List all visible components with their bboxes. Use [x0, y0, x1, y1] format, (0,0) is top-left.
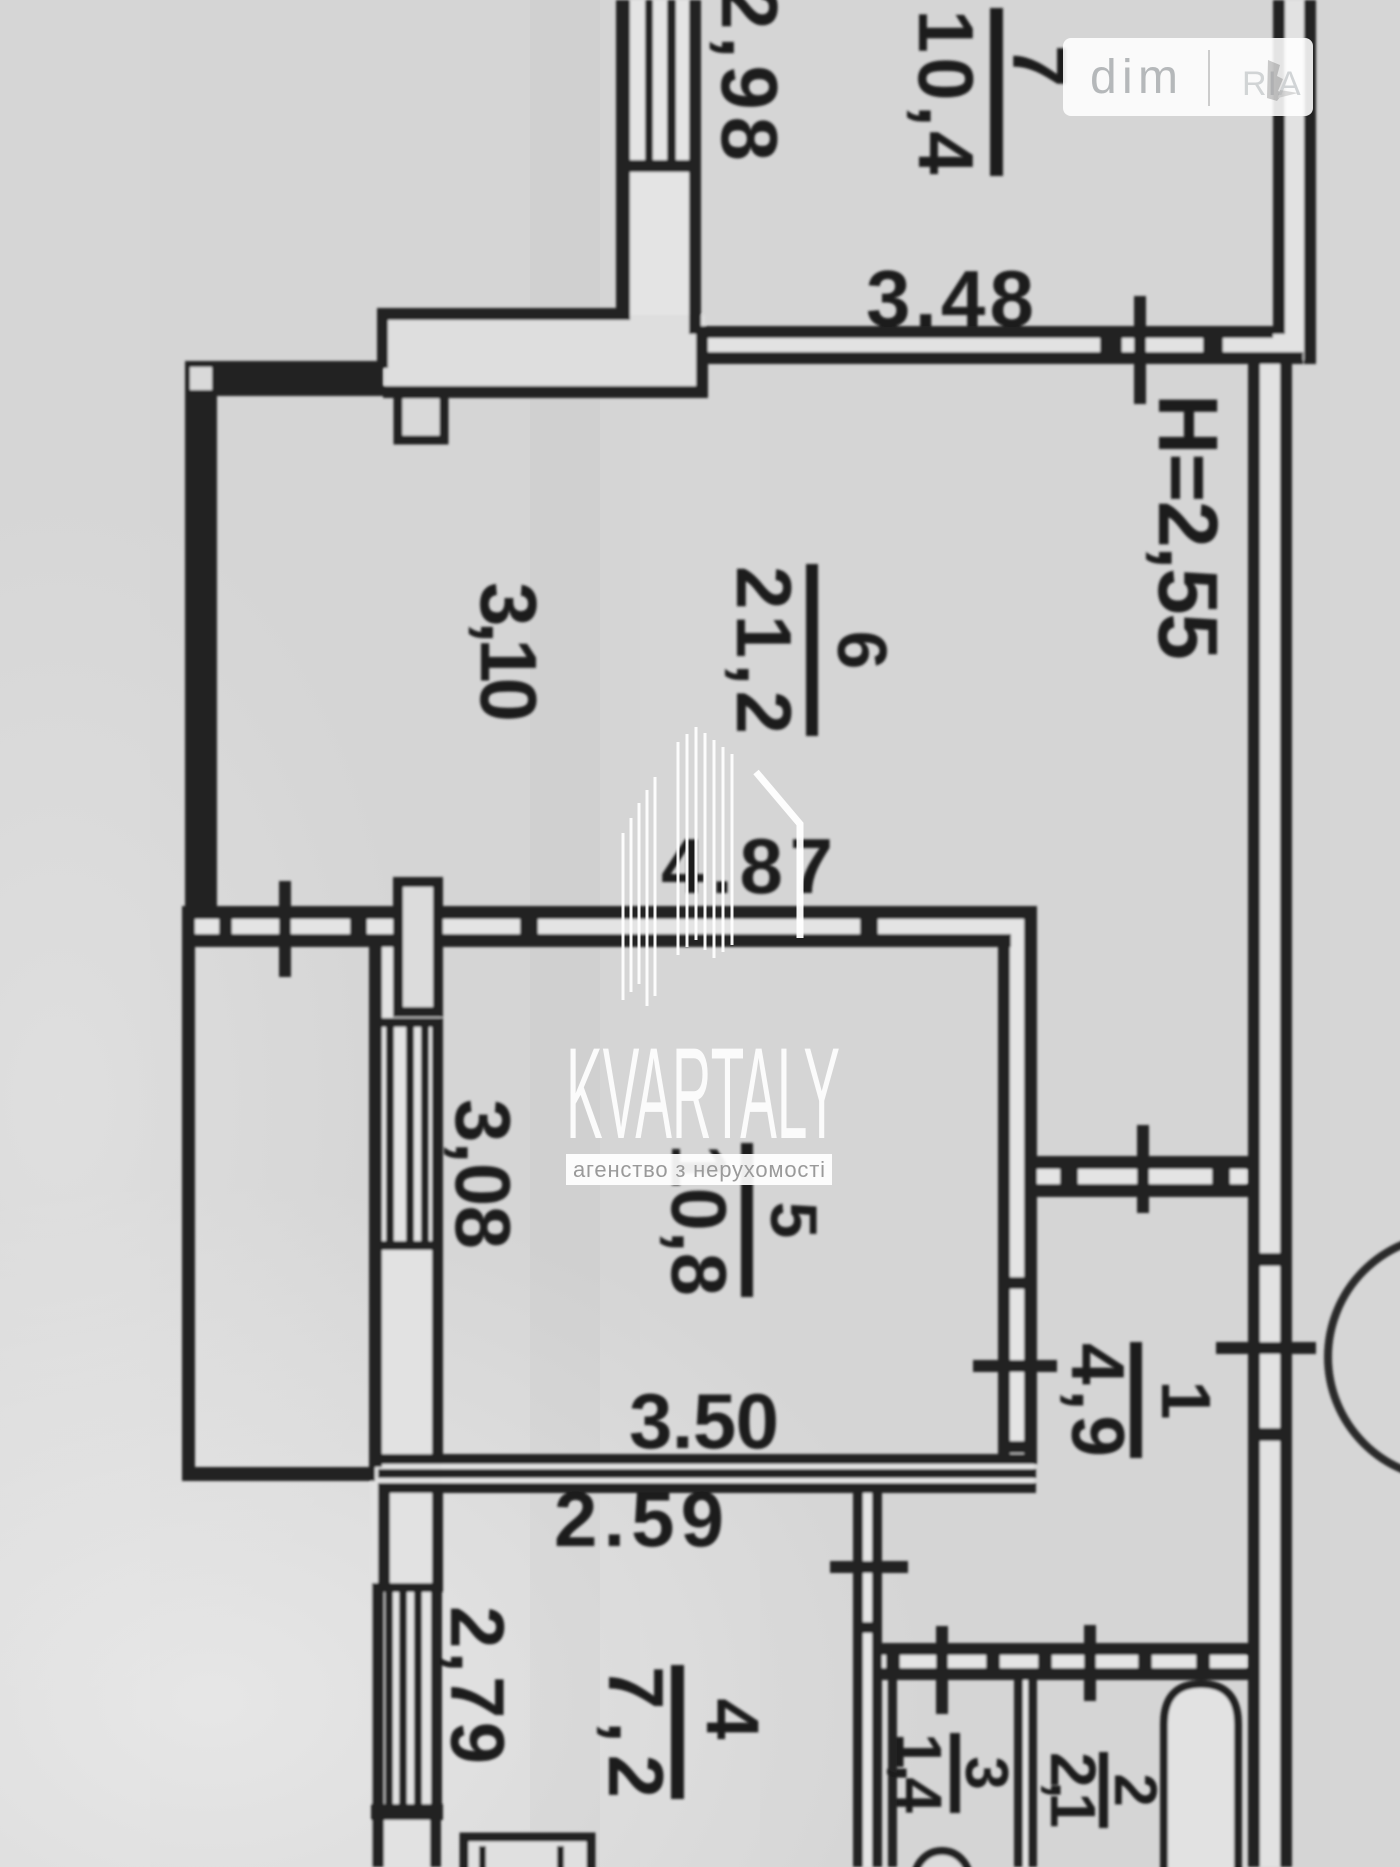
- svg-text:3.50: 3.50: [629, 1377, 779, 1465]
- wall: room4 right wall outer line: [853, 1483, 863, 1867]
- wall above window W4 left line: [378, 1493, 390, 1585]
- svg-text:5: 5: [757, 1202, 831, 1239]
- wall cavity dash b: [1203, 338, 1223, 352]
- watermark: kvartaly logo fan lines: [623, 727, 732, 1006]
- wall between rooms 3 and 2 line 1: [1014, 1668, 1023, 1867]
- wall: outer right wall lower outer line: [1280, 352, 1292, 1867]
- entrance door swing arc: [1328, 1235, 1400, 1479]
- wall: outer right wall upper inner line: [1273, 0, 1285, 334]
- watermark: agency bar: [566, 1154, 832, 1185]
- svg-text:1: 1: [1147, 1381, 1225, 1420]
- wall cavity dash on room5 right wall upper: [1008, 1277, 1026, 1289]
- wall: rooms 3/2 top wall line 2: [880, 1668, 1248, 1680]
- dimension text 2,79 (vertical): [434, 1606, 519, 1764]
- wall cavity light fill: right wall lower: [1250, 355, 1290, 1867]
- wall cavity light fill: right wall upper: [1276, 0, 1314, 360]
- wall: corridor wall left line (top): [616, 0, 630, 320]
- wall: room5 top wall left top line: [182, 906, 395, 919]
- cavity dash e: [520, 919, 538, 934]
- svg-text:2.59: 2.59: [554, 1475, 724, 1563]
- dimension tick x=285 on room5 top wall: [279, 881, 291, 977]
- wall above window W4 right line: [432, 1493, 443, 1585]
- svg-text:7,2: 7,2: [592, 1666, 680, 1798]
- bathtub in room 2: [1164, 1684, 1238, 1867]
- room label 1 / 4,9: [1056, 1342, 1225, 1458]
- wall: balcony left line: [182, 913, 195, 1481]
- wall: room5 top wall right bottom line: [441, 934, 1011, 947]
- wall below window W4 left line: [372, 1818, 384, 1867]
- svg-text:2,98: 2,98: [705, 0, 794, 161]
- svg-text:21,2: 21,2: [720, 566, 808, 734]
- svg-text:1,4: 1,4: [883, 1733, 955, 1813]
- wall: room 6 top thin line: [377, 308, 630, 320]
- light scan glow bottom-left: [0, 1180, 930, 1867]
- wall cavity light fill: room1 top wall: [1033, 1158, 1246, 1196]
- wall: room5 right wall inner line: [998, 934, 1010, 1458]
- dimension tick y=1348 on right outer wall: [1216, 1342, 1316, 1354]
- wall: room 6 top cavity bottom line D: [383, 386, 708, 398]
- wall cavity light fill: room5 bottom wall: [380, 1456, 1034, 1492]
- watermark: divider: [1208, 50, 1210, 106]
- cavity dash c: [219, 919, 232, 934]
- wall between rooms 3 and 2 line 2: [1028, 1668, 1037, 1867]
- dimension text 3,10 (vertical): [464, 582, 553, 722]
- wall: corridor wall right line (top): [689, 0, 701, 334]
- wall: room1 top wall bottom line: [1031, 1184, 1248, 1197]
- wall: outer right wall lower inner line: [1248, 352, 1260, 1867]
- svg-text:3,08: 3,08: [439, 1099, 527, 1249]
- wall cavity light fill: rooms3/2 partition: [1016, 1670, 1036, 1867]
- svg-text:3.48: 3.48: [866, 254, 1034, 343]
- svg-text:H=2,55: H=2,55: [1141, 394, 1235, 660]
- wall: balcony bottom line: [182, 1467, 375, 1481]
- window W5 frame: [369, 1018, 443, 1027]
- faint scanner bands: [0, 0, 150, 1867]
- wall: balcony right line: [369, 944, 382, 1467]
- wall cavity light fill: room5 top wall: [184, 908, 1034, 946]
- svg-text:4: 4: [691, 1698, 774, 1739]
- wall: room5 bottom wall line 3: [378, 1483, 1036, 1493]
- wall cavity light fill: 3.48 wall: [700, 330, 1300, 360]
- room label 4 / 7,2: [592, 1665, 774, 1799]
- dimension tick x=1090 on rooms3/2 top wall: [1084, 1625, 1096, 1701]
- room label 6 / 21,2: [720, 564, 901, 736]
- watermark: logo bent stroke: [756, 772, 800, 938]
- wall: room5 bottom wall line 1: [378, 1454, 1036, 1464]
- window W4 hatch lines: [385, 1592, 393, 1808]
- wall cavity dash on room4 right wall: [861, 1622, 874, 1633]
- wall cavity light fill: corridor band: [620, 0, 696, 330]
- dimension tick x=942 on rooms3/2 top wall: [936, 1626, 948, 1714]
- wall: step edge at x=377: [377, 308, 388, 368]
- window W7 sill line: [616, 160, 701, 172]
- wall: room5 right wall outer line: [1024, 906, 1037, 1464]
- wall: black block room6 top-left: [185, 361, 383, 396]
- wall cavity light fill: room6 top band: [385, 315, 705, 393]
- white notch in black block: [190, 367, 212, 390]
- svg-text:агенство з нерухомості: агенство з нерухомості: [573, 1157, 825, 1182]
- wall: connector at corridor/3.48 junction: [696, 334, 708, 398]
- door jamb stub below room6 top wall: [398, 394, 444, 440]
- svg-text:KVARTALY: KVARTALY: [566, 1020, 840, 1166]
- wall: room5 top wall left bottom line: [182, 934, 395, 947]
- wall: rooms 3/2 top wall line 1: [880, 1643, 1248, 1655]
- wall: 3.48 wall top line: [696, 326, 1273, 338]
- svg-text:6: 6: [823, 631, 901, 670]
- watermark: RIA smudge: [1242, 65, 1302, 103]
- svg-text:2: 2: [1102, 1773, 1169, 1806]
- wall below window W4 right line: [430, 1818, 441, 1867]
- svg-text:3,10: 3,10: [464, 582, 553, 722]
- cavity dash d: [350, 919, 367, 934]
- watermark: dim RIA box: [1063, 38, 1313, 116]
- dimension text 3,08 (vertical): [439, 1099, 527, 1249]
- dimension tick x=1143 on room1 top wall: [1137, 1125, 1149, 1213]
- wall: room3 left line: [888, 1676, 897, 1867]
- light scan glow left-mid: [0, 480, 420, 1720]
- svg-text:10,4: 10,4: [902, 10, 990, 175]
- dimension tick y=1366 on room5 right wall: [973, 1360, 1057, 1372]
- cavity dash g: [1060, 1169, 1078, 1184]
- room label 2 / 2,1: [1037, 1752, 1169, 1828]
- dimension text 2,98 (vertical): [705, 0, 794, 161]
- wall: room1 top wall top line: [1031, 1156, 1248, 1169]
- door jamb upper on right wall: [1248, 1253, 1292, 1266]
- toilet in room 3: [915, 1851, 969, 1867]
- wall: room4 right wall inner line: [872, 1483, 882, 1867]
- wall cavity light fill: window band left: [371, 946, 441, 1867]
- kitchen fixture in room 4: [464, 1837, 591, 1867]
- wall cavity light fill: room4 right wall: [855, 1485, 881, 1867]
- window W7 hatch line 1: [645, 0, 653, 166]
- svg-text:2,1: 2,1: [1037, 1752, 1109, 1828]
- wall cavity light fill: room5 right wall: [1000, 908, 1035, 1464]
- wall: left thick bearing wall: [185, 361, 217, 913]
- room label 3 / 1,4: [883, 1733, 1020, 1813]
- wall pier jamb above window W5: [398, 882, 438, 1012]
- svg-text:2,79: 2,79: [434, 1606, 519, 1764]
- window W4 frame: [372, 1583, 443, 1592]
- cavity dash f: [860, 919, 878, 934]
- wall: outer right wall upper outer line: [1304, 0, 1316, 364]
- dimension tick y=1567 on room4 right wall: [830, 1561, 908, 1573]
- wall cavity dash on room5 right wall lower: [1008, 1441, 1026, 1453]
- wall: room5 bottom wall line 2: [378, 1469, 1036, 1478]
- dimension tick x=1140 on 3.48 wall: [1134, 296, 1146, 404]
- wall cavity light fill: rooms3/2 top wall: [882, 1645, 1246, 1679]
- dimension text H=2,55 (vertical): [1141, 394, 1235, 660]
- cavity dash h: [1212, 1169, 1230, 1184]
- window W7 hatch line 2: [667, 0, 676, 166]
- room label 5 / 10,8: [655, 1143, 831, 1297]
- window W5 hatch lines: [386, 1027, 394, 1241]
- svg-text:3: 3: [953, 1756, 1020, 1789]
- door jamb lower on right wall: [1248, 1428, 1292, 1441]
- svg-text:4,9: 4,9: [1056, 1343, 1140, 1457]
- wall: room5 top wall right top line: [441, 906, 1037, 919]
- room label 7 / 10,4: [902, 8, 1081, 176]
- watermark: KVARTALY text: [566, 1020, 840, 1166]
- wall below window W5 right line: [432, 1250, 443, 1456]
- wall cavity dash a: [1100, 338, 1122, 352]
- wall below window W5 left line: [369, 1250, 382, 1456]
- wall: 3.48 wall bottom line: [701, 352, 1303, 364]
- wall cavity dashes on rooms3/2 top wall: [886, 1655, 900, 1670]
